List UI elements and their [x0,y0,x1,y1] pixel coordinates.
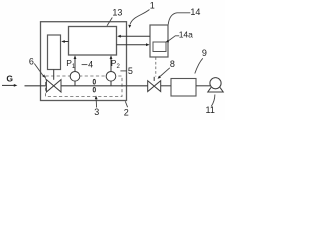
pump 11 skirt [208,87,223,92]
leader for label 6 with arrowhead [34,64,43,76]
leader for label 11 [211,95,215,107]
leader for label 1 with arrowhead [130,10,150,25]
leader for label 3 with arrowhead [95,100,97,108]
inner box 14a [153,42,166,52]
svg-text:2: 2 [124,107,129,117]
leader for label 2 [125,101,127,107]
pressure sensor P1 circle [74,81,76,86]
wire: pipe valve8 to box9 [161,85,171,87]
svg-text:9: 9 [202,48,207,58]
svg-text:5: 5 [128,66,133,76]
svg-text:13: 13 [112,7,122,17]
svg-text:14a: 14a [179,29,193,39]
dashed body block 3 [46,76,123,97]
box 9 [171,79,196,97]
arrow controller to actuator [64,41,69,43]
wire: inlet pipe [25,85,47,87]
orifice upper ellipse [93,79,95,84]
svg-text:P1: P1 [66,58,76,70]
leader for label 4 [82,64,88,66]
svg-text:4: 4 [88,60,93,70]
orifice lower ellipse [93,88,95,92]
controller box 13 [69,27,117,56]
box 14 [150,25,168,57]
leader for label 14a with arrowhead [168,36,179,41]
pressure sensor P2 circle [110,81,112,86]
svg-text:1: 1 [150,1,155,11]
svg-text:G: G [6,73,13,83]
wire: pipe box9 to pump [196,85,210,87]
leader for label 14 [168,13,190,25]
wire P2 to controller [110,59,112,72]
leader for label 5 [120,70,127,72]
enclosure box 2 [41,22,127,101]
svg-text:11: 11 [206,105,215,115]
leader for label 9 [195,58,203,73]
G inlet arrow [2,84,14,86]
pump 11 circle [210,78,221,89]
valve V6 bowtie [46,80,61,92]
svg-text:3: 3 [94,107,99,117]
valve 6 stem [53,70,55,80]
leader for label 13 [107,18,112,26]
leader for label 8 with arrowhead [160,68,170,77]
svg-text:14: 14 [190,7,200,17]
valve V8 bowtie [148,81,161,92]
arrow 13 to 14 [117,44,147,46]
wire P1 to controller [74,59,76,72]
dashed control line 14 to valve 8 [155,57,157,76]
arrow 14 to 13 [121,35,151,37]
svg-text:6: 6 [29,57,34,67]
valve actuator box (valve 6) [48,35,61,70]
svg-text:P2: P2 [111,58,121,70]
valve 8 stem [153,77,155,81]
wire: main pipe [61,85,148,87]
svg-text:8: 8 [170,59,175,69]
